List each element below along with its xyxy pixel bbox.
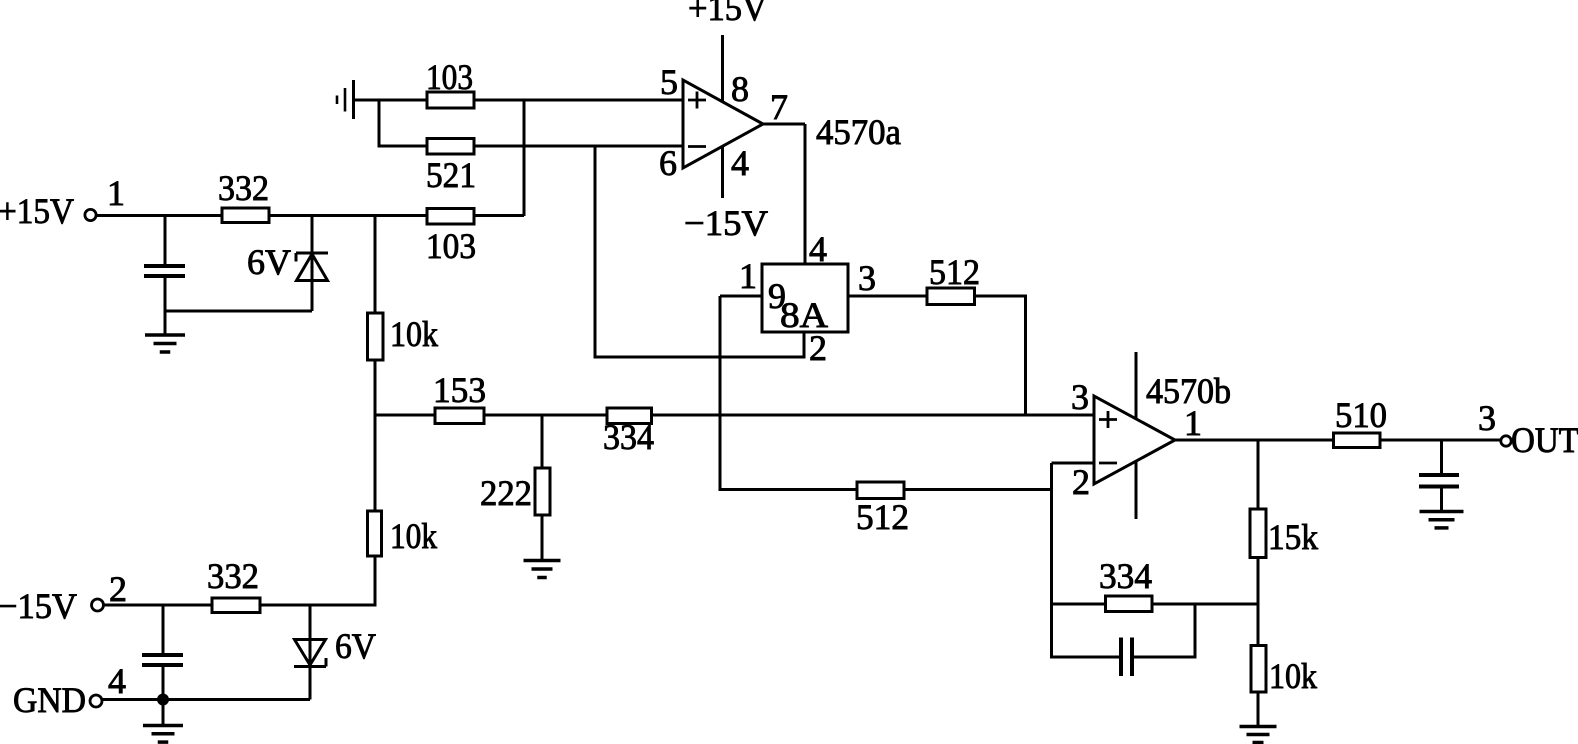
wire op-amp A +input row: [354, 99, 427, 102]
resistor 103 (lower): [427, 209, 474, 225]
ground (below 222): [524, 559, 561, 563]
svg-text:2: 2: [109, 569, 127, 609]
capacitor C2 (on -15V): [142, 653, 183, 657]
capacitor C3 (feedback): [1119, 638, 1123, 677]
wire mid rail c (to U1b +input): [652, 414, 1095, 417]
svg-text:8: 8: [731, 69, 749, 109]
wire capacitor C2 branch lower: [162, 665, 165, 700]
wire 512 upper drop to +input rail: [1024, 296, 1027, 415]
wire 15k to 10k: [1257, 558, 1260, 646]
wire +15V rail segment a: [97, 214, 223, 217]
svg-text:6: 6: [659, 143, 677, 183]
zener diode D1 6V vertical wire: [311, 214, 314, 311]
svg-text:1: 1: [1184, 403, 1202, 443]
wire 222 to ground: [541, 515, 544, 561]
wire capacitor C2 branch upper: [162, 605, 165, 655]
zener diode D1 6V (cathode bar): [296, 252, 328, 255]
svg-text:103: 103: [426, 226, 476, 266]
ground (below C1): [164, 311, 167, 335]
svg-text:4: 4: [809, 229, 827, 269]
zener diode D2 6V vertical wire: [309, 605, 312, 700]
resistor 334 (feedback): [1106, 596, 1153, 612]
svg-text:510: 510: [1335, 395, 1387, 435]
svg-text:+15V: +15V: [688, 0, 767, 28]
resistor 15k: [1250, 509, 1266, 558]
svg-text:10k: 10k: [390, 516, 437, 556]
op-amp U1a power line: [721, 35, 724, 198]
wire 10k to ground: [1257, 692, 1260, 727]
wire -15V rail b: [260, 604, 377, 607]
svg-text:10k: 10k: [390, 314, 438, 354]
wire +15V rail segment c: [474, 214, 524, 217]
svg-text:332: 332: [218, 168, 269, 208]
junction dot (GND rail): [158, 694, 169, 705]
svg-text:1: 1: [107, 173, 125, 213]
wire feedback 334 row b: [1152, 603, 1260, 606]
wire 521 row a: [379, 145, 427, 148]
zener diode D2 6V (triangle): [295, 640, 326, 666]
svg-text:4: 4: [731, 143, 749, 183]
svg-text:3: 3: [858, 258, 876, 298]
wire 512 upper to corner: [975, 295, 1028, 298]
svg-text:222: 222: [480, 473, 532, 513]
wire U1b -input stub: [1052, 462, 1095, 465]
wire 222 branch: [541, 415, 544, 468]
terminal 4 (GND input): [90, 695, 102, 707]
svg-text:521: 521: [426, 155, 476, 195]
wire feedback cap riser: [1194, 604, 1197, 659]
svg-text:3: 3: [1478, 398, 1496, 438]
op-amp U1b plus sign: [1099, 418, 1117, 421]
wire feedback cap row b: [1132, 656, 1195, 659]
wire 8A pin2 stub: [803, 332, 806, 357]
resistor 153: [435, 408, 484, 424]
wire 10k chain lower: [374, 415, 377, 511]
resistor 10k (output divider): [1251, 646, 1266, 693]
wire output cap to ground: [1440, 487, 1443, 514]
svg-text:512: 512: [856, 497, 909, 537]
resistor 222: [535, 468, 550, 515]
svg-text:334: 334: [603, 417, 654, 457]
wire 8A pin2 row: [595, 356, 806, 359]
multiplier U2 8A (box): [762, 264, 848, 332]
wire op-amp A +input row b: [474, 99, 683, 102]
op-amp U1b power line: [1135, 352, 1138, 519]
ground (below 10k): [1240, 725, 1277, 729]
wire 10k chain middle: [374, 360, 377, 417]
resistor 521: [427, 139, 474, 155]
svg-text:5: 5: [660, 62, 678, 102]
wire drop from -input row to 8A pin2 row: [594, 146, 597, 359]
svg-text:512: 512: [929, 252, 980, 292]
terminal 2 (-15V input): [92, 599, 104, 611]
resistor 10k (upper): [368, 313, 384, 360]
op-amp U1b minus sign: [1099, 462, 1117, 465]
wire capacitor C1 branch lower: [164, 276, 167, 313]
svg-text:+15V: +15V: [0, 191, 74, 231]
wire op-amp A -input row: [474, 145, 683, 148]
op-amp U1b 4570b (triangle): [1094, 396, 1175, 484]
wire U1b output: [1175, 439, 1334, 442]
svg-text:4: 4: [108, 661, 126, 701]
ground (below C4): [1420, 510, 1464, 514]
wire U1a output drop to 8A: [804, 124, 807, 264]
op-amp U1a plus sign: [688, 99, 706, 102]
wire gnd-net drop to 521 row: [378, 100, 381, 148]
ground (below GND rail): [162, 700, 165, 726]
wire feedback 334 row a: [1052, 603, 1106, 606]
wire C1/zener bottom link: [164, 310, 313, 313]
op-amp U1a minus sign: [688, 145, 706, 148]
wire mid rail b: [484, 414, 607, 417]
svg-text:2: 2: [1072, 462, 1090, 502]
wire +15V rail segment b: [269, 214, 427, 217]
svg-text:GND: GND: [13, 680, 86, 720]
wire U1b -input vertical: [1050, 463, 1053, 659]
svg-text:6V: 6V: [247, 242, 291, 282]
resistor 334 (middle): [607, 408, 652, 424]
svg-text:1: 1: [739, 256, 757, 296]
svg-text:10k: 10k: [1269, 656, 1317, 696]
svg-text:2: 2: [809, 328, 827, 368]
resistor 103 (upper): [427, 92, 474, 108]
capacitor C1 (on +15V): [144, 264, 185, 268]
zener diode D1 6V (triangle): [297, 254, 328, 281]
wire 8A pin1 row to 512 lower: [720, 488, 857, 491]
wire 8A pin1 stub: [720, 295, 762, 298]
wire -15V rail a: [103, 604, 212, 607]
resistor 510: [1334, 433, 1381, 448]
wire 10k chain to -15V rail: [374, 556, 377, 607]
wire 10k chain top: [374, 214, 377, 313]
svg-text:OUT: OUT: [1511, 420, 1578, 460]
svg-text:103: 103: [426, 57, 473, 97]
terminal 3 (OUT): [1501, 436, 1511, 446]
op-amp U1a 4570a (triangle): [683, 80, 763, 168]
svg-text:6V: 6V: [335, 626, 376, 666]
svg-text:−15V: −15V: [684, 203, 768, 243]
wire GND rail: [102, 698, 311, 701]
svg-text:332: 332: [207, 556, 259, 596]
svg-text:7: 7: [770, 87, 788, 127]
svg-text:153: 153: [433, 370, 486, 410]
wire 8A pin3 stub: [848, 295, 927, 298]
terminal 1 (+15V input): [85, 209, 96, 220]
resistor 332 (bottom supply): [212, 598, 260, 613]
svg-text:334: 334: [1099, 556, 1152, 596]
wire 512 lower to U1b -input drop: [904, 488, 1053, 491]
wire 8A pin1 drop: [719, 296, 722, 491]
wire resistor network right vertical: [523, 99, 526, 217]
wire 15k branch top: [1257, 440, 1260, 509]
wire mid rail a: [375, 414, 435, 417]
svg-text:4570a: 4570a: [816, 112, 901, 152]
resistor 332 (top supply): [222, 208, 269, 223]
resistor 512 (upper): [927, 288, 975, 305]
wire output to terminal: [1380, 439, 1501, 442]
svg-text:−15V: −15V: [0, 586, 77, 626]
svg-text:3: 3: [1071, 377, 1089, 417]
wire U1a output: [763, 123, 805, 126]
resistor 512 (lower): [857, 482, 904, 499]
ground (top-left, rotated): [352, 80, 355, 119]
resistor 10k (lower): [368, 511, 382, 556]
wire feedback cap row a: [1052, 656, 1122, 659]
wire capacitor C1 branch upper: [164, 214, 167, 266]
capacitor C4 (output): [1419, 473, 1459, 477]
wire output cap branch: [1440, 440, 1443, 475]
svg-text:15k: 15k: [1268, 517, 1318, 557]
zener diode D2 6V (cathode bar): [294, 665, 326, 668]
